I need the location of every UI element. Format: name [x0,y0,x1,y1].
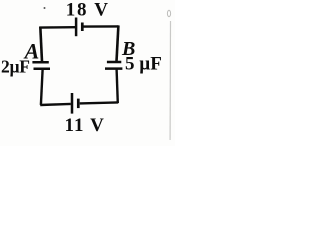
svg-text:2µF: 2µF [1,57,30,77]
scan line right edge [169,21,171,140]
capacitor C2 (5 µF) top plate [107,61,121,64]
scan smudge top-right [167,10,170,16]
wire top-right segment [84,25,119,28]
capacitor C2 (5 µF) bottom plate [105,67,122,70]
wire right lower segment [117,70,118,104]
battery V1 (18 V) short plate [81,23,84,32]
wire bottom-left segment [40,104,71,105]
svg-text:5 µF: 5 µF [125,54,162,75]
wire left upper segment [40,27,42,62]
svg-text:18 V: 18 V [66,0,110,20]
battery V2 (11 V) short plate [77,99,80,109]
svg-text:11 V: 11 V [65,115,105,136]
wire right upper segment [117,25,119,61]
scan speck top-center [44,7,46,9]
capacitor C1 (2 µF) top plate [32,61,48,64]
battery V2 (11 V) long plate [71,93,74,114]
battery V1 (18 V) long plate [75,18,78,37]
wire top-left segment [39,26,75,29]
capacitor C1 (2 µF) bottom plate [34,68,51,71]
wire left lower segment [41,70,43,105]
wire bottom-right segment [80,102,118,103]
